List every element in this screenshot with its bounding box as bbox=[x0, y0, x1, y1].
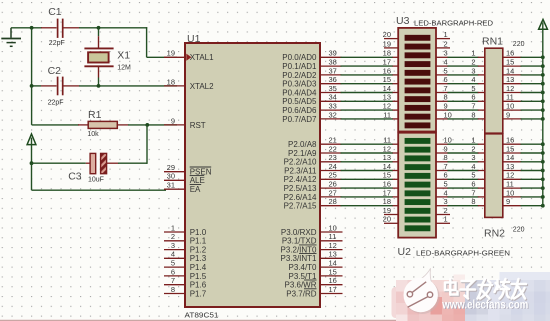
U3 left pin 16 bbox=[383, 66, 399, 75]
svg-text:24: 24 bbox=[329, 162, 337, 171]
wire RN1 pin 13 to +rail bbox=[521, 83, 543, 85]
svg-text:18: 18 bbox=[167, 77, 175, 86]
wire RN1 pin 14 to +rail bbox=[521, 74, 543, 76]
svg-text:4: 4 bbox=[171, 250, 175, 259]
RN1 left pin 8 bbox=[471, 110, 484, 119]
svg-text:20: 20 bbox=[383, 215, 391, 224]
U3 right pin 4 bbox=[436, 58, 448, 67]
svg-text:RN2: RN2 bbox=[484, 228, 505, 240]
svg-text:2: 2 bbox=[471, 144, 475, 153]
pin P2.5/A13 (pin 26) bbox=[284, 180, 342, 194]
svg-text:4: 4 bbox=[471, 75, 475, 84]
svg-text:4: 4 bbox=[444, 58, 448, 67]
wire: to EA pin bbox=[32, 189, 167, 191]
svg-text:P0.7/AD7: P0.7/AD7 bbox=[282, 115, 317, 124]
svg-text:37: 37 bbox=[329, 66, 337, 75]
svg-text:AT89C51: AT89C51 bbox=[185, 310, 219, 319]
wire P0.0 to U3 pin 18 bbox=[341, 56, 394, 58]
svg-text:39: 39 bbox=[329, 49, 337, 58]
wire: corner down to XTAL1 bbox=[146, 27, 148, 57]
rail junction bbox=[541, 117, 545, 121]
svg-text:P2.7/A15: P2.7/A15 bbox=[284, 202, 317, 211]
LED bargraph U3 (red) body bbox=[398, 28, 436, 132]
svg-text:34: 34 bbox=[329, 93, 337, 102]
RN2 left pin 6 bbox=[471, 180, 484, 189]
capacitor C3 (polarized 10uF) bbox=[32, 153, 119, 173]
svg-text:16: 16 bbox=[383, 66, 391, 75]
pin P2.7/A15 (pin 28) bbox=[284, 197, 342, 211]
svg-text:1: 1 bbox=[444, 30, 448, 39]
svg-text:P1.2: P1.2 bbox=[190, 246, 207, 255]
svg-text:17: 17 bbox=[383, 58, 391, 67]
svg-text:XTAL2: XTAL2 bbox=[190, 82, 214, 91]
svg-text:38: 38 bbox=[329, 58, 337, 67]
capacitor C1 bbox=[41, 19, 80, 38]
svg-text:C2: C2 bbox=[48, 65, 62, 77]
svg-text:12: 12 bbox=[506, 84, 514, 93]
watermark logo circle bbox=[404, 268, 440, 314]
wire RN2 pin 11 to +rail bbox=[521, 187, 543, 189]
rail junction bbox=[541, 186, 545, 190]
wire P2.2 to U2 pin 13 bbox=[341, 161, 394, 163]
RN1 right pin 9 bbox=[503, 110, 522, 119]
svg-text:16: 16 bbox=[329, 276, 337, 285]
wire U2 pin 10 to RN2 pin 1 bbox=[448, 143, 479, 145]
svg-text:11: 11 bbox=[329, 232, 337, 241]
rail junction bbox=[541, 151, 545, 155]
svg-text:12M: 12M bbox=[117, 65, 131, 72]
U3 left pin 18 bbox=[383, 49, 399, 58]
RN1 left pin 2 bbox=[471, 58, 484, 67]
svg-text:4: 4 bbox=[444, 188, 448, 197]
svg-text:P2.2/A10: P2.2/A10 bbox=[284, 158, 317, 167]
wire P2.4 to U2 pin 15 bbox=[341, 178, 394, 180]
wire: left rail down to C2 bbox=[31, 28, 33, 86]
svg-text:P0.2/AD2: P0.2/AD2 bbox=[282, 71, 317, 80]
svg-text:5: 5 bbox=[444, 180, 448, 189]
wire RN1 pin 10 to +rail bbox=[521, 109, 543, 111]
RN2 left pin 5 bbox=[471, 171, 484, 180]
svg-text:1: 1 bbox=[471, 136, 475, 145]
wire RN1 pin 16 to +rail bbox=[521, 56, 543, 58]
rail junction bbox=[541, 195, 545, 199]
pin P0.5/AD5 (pin 34) bbox=[282, 93, 341, 107]
svg-text:18: 18 bbox=[383, 49, 391, 58]
svg-text:P0.1/AD1: P0.1/AD1 bbox=[282, 62, 317, 71]
svg-text:www.elecfans.com: www.elecfans.com bbox=[442, 297, 529, 311]
svg-text:6: 6 bbox=[444, 75, 448, 84]
svg-text:14: 14 bbox=[383, 84, 391, 93]
svg-text:17: 17 bbox=[329, 285, 337, 294]
resistor network RN1 body bbox=[485, 48, 503, 133]
RN1 left pin 5 bbox=[471, 84, 484, 93]
RN2 right pin 11 bbox=[503, 180, 522, 189]
wire U3 pin 6 to RN1 pin 4 bbox=[448, 83, 479, 85]
svg-text:19: 19 bbox=[383, 39, 391, 48]
svg-text:P2.1/A9: P2.1/A9 bbox=[288, 149, 317, 158]
svg-text:P0.3/AD3: P0.3/AD3 bbox=[282, 80, 317, 89]
svg-text:15: 15 bbox=[383, 75, 391, 84]
svg-text:9: 9 bbox=[506, 197, 510, 206]
RN2 right pin 16 bbox=[503, 136, 522, 145]
svg-text:P0.4/AD4: P0.4/AD4 bbox=[282, 88, 317, 97]
wire U2 pin 5 to RN2 pin 6 bbox=[448, 187, 479, 189]
U2 left pin 15 bbox=[383, 171, 399, 180]
pin P0.0/AD0 (pin 39) bbox=[282, 49, 341, 63]
svg-text:3: 3 bbox=[471, 153, 475, 162]
svg-text:13: 13 bbox=[506, 75, 514, 84]
RN1 right pin 12 bbox=[503, 84, 522, 93]
svg-text:1: 1 bbox=[171, 223, 175, 232]
pin P2.3/A11 (pin 24) bbox=[284, 162, 341, 176]
RN1 right pin 15 bbox=[503, 58, 522, 67]
svg-text:22pF: 22pF bbox=[49, 40, 65, 47]
wire: C3 up to RST junction bbox=[146, 125, 148, 164]
wire RN1 pin 9 to +rail bbox=[521, 118, 543, 120]
svg-text:10: 10 bbox=[444, 110, 452, 119]
pin P1.7 (pin 8) bbox=[164, 285, 207, 299]
pin P2.2/A10 (pin 23) bbox=[284, 153, 342, 167]
svg-text:15: 15 bbox=[506, 58, 514, 67]
node: X1 top junction bbox=[97, 26, 101, 30]
svg-text:8: 8 bbox=[471, 197, 475, 206]
sheet border bottom bbox=[0, 319, 550, 321]
resistor network RN2 body bbox=[485, 134, 503, 218]
RN1 right pin 16 bbox=[503, 49, 522, 58]
pin P1.3 (pin 4) bbox=[164, 250, 207, 264]
pin P0.4/AD4 (pin 35) bbox=[282, 84, 341, 98]
pin P2.0/A8 (pin 21) bbox=[288, 136, 341, 150]
svg-text:13: 13 bbox=[383, 153, 391, 162]
svg-text:9: 9 bbox=[506, 110, 510, 119]
watermark mosaic background bbox=[392, 272, 550, 321]
svg-text:19: 19 bbox=[383, 206, 391, 215]
RN2 right pin 9 bbox=[503, 197, 522, 206]
svg-text:11: 11 bbox=[506, 93, 514, 102]
wire RN2 pin 9 to +rail bbox=[521, 205, 543, 207]
wire P2.3 to U2 pin 14 bbox=[341, 170, 394, 172]
pin ALE (pin 30) bbox=[164, 172, 205, 186]
svg-text:7: 7 bbox=[171, 276, 175, 285]
power terminal (up arrow, right) bbox=[539, 19, 548, 29]
wire: R1 to RST pin bbox=[128, 124, 177, 126]
svg-text:7: 7 bbox=[471, 188, 475, 197]
svg-text:6: 6 bbox=[471, 180, 475, 189]
U2 right pin 7 bbox=[436, 162, 448, 171]
wire U3 pin 3 to RN1 pin 1 bbox=[448, 56, 479, 58]
rail junction bbox=[541, 82, 545, 86]
U2 right pin 8 bbox=[436, 153, 448, 162]
U2 left pin 13 bbox=[383, 153, 399, 162]
svg-text:9: 9 bbox=[444, 144, 448, 153]
svg-text:9: 9 bbox=[444, 102, 448, 111]
svg-text:P1.3: P1.3 bbox=[190, 254, 207, 263]
wire: power arrow stem to C3 bbox=[31, 138, 33, 164]
U2 right pin 2 bbox=[436, 206, 450, 215]
U2 right pin 1 bbox=[436, 215, 450, 224]
svg-text:16: 16 bbox=[383, 180, 391, 189]
svg-text:33: 33 bbox=[329, 102, 337, 111]
svg-text:12: 12 bbox=[506, 171, 514, 180]
U3 right pin 8 bbox=[436, 93, 448, 102]
svg-text:P3.6/WR: P3.6/WR bbox=[284, 281, 316, 290]
svg-text:19: 19 bbox=[167, 49, 175, 58]
wire: C3 right to vertical bbox=[118, 162, 147, 164]
capacitor C2 bbox=[32, 77, 80, 96]
LED bargraph U2 (green) body bbox=[398, 133, 436, 238]
svg-text:5: 5 bbox=[171, 259, 175, 268]
wire RN2 pin 14 to +rail bbox=[521, 161, 543, 163]
U3 left pin 20 bbox=[383, 30, 399, 39]
pin P3.7/RD (pin 17) bbox=[286, 285, 342, 299]
svg-text:21: 21 bbox=[329, 136, 337, 145]
svg-text:5: 5 bbox=[471, 171, 475, 180]
U2 left pin 20 bbox=[383, 215, 399, 224]
U3 right pin 3 bbox=[436, 49, 448, 58]
wire U3 pin 4 to RN1 pin 2 bbox=[448, 65, 479, 67]
pin EA (pin 31) bbox=[164, 181, 201, 195]
svg-text:LED-BARGRAPH-RED: LED-BARGRAPH-RED bbox=[414, 21, 493, 28]
RN2 right pin 10 bbox=[503, 188, 522, 197]
svg-text:10k: 10k bbox=[87, 131, 99, 138]
node: C3 left junction bbox=[30, 161, 34, 165]
RN1 right pin 14 bbox=[503, 66, 522, 75]
U3 left pin 19 bbox=[383, 39, 399, 48]
wire P2.5 to U2 pin 16 bbox=[341, 187, 394, 189]
svg-text:13: 13 bbox=[506, 162, 514, 171]
svg-text:2: 2 bbox=[444, 39, 448, 48]
svg-text:14: 14 bbox=[383, 162, 391, 171]
svg-text:36: 36 bbox=[329, 75, 337, 84]
wire: to XTAL1 pin bbox=[147, 56, 177, 58]
wire P0.4 to U3 pin 14 bbox=[341, 92, 394, 94]
svg-text:P1.1: P1.1 bbox=[190, 237, 207, 246]
rail junction bbox=[541, 108, 545, 112]
watermark url text bbox=[442, 297, 530, 312]
pin P1.1 (pin 2) bbox=[164, 232, 207, 246]
svg-text:P1.7: P1.7 bbox=[190, 289, 207, 298]
svg-text:P1.4: P1.4 bbox=[190, 263, 207, 272]
svg-text:27: 27 bbox=[329, 188, 337, 197]
U3 left pin 17 bbox=[383, 58, 399, 67]
svg-text:17: 17 bbox=[383, 188, 391, 197]
svg-text:2: 2 bbox=[471, 58, 475, 67]
rail junction bbox=[541, 169, 545, 173]
wire P2.7 to U2 pin 18 bbox=[341, 205, 394, 207]
svg-text:14: 14 bbox=[506, 153, 514, 162]
svg-text:P2.3/A11: P2.3/A11 bbox=[284, 166, 317, 175]
U2 LED segments bbox=[405, 138, 431, 231]
ground bbox=[1, 28, 21, 47]
U2 left pin 11 bbox=[383, 136, 398, 145]
wire U2 pin 3 to RN2 pin 8 bbox=[448, 205, 479, 207]
svg-text:2: 2 bbox=[444, 206, 448, 215]
rail junction bbox=[541, 64, 545, 68]
U3 right pin 1 bbox=[436, 30, 450, 39]
U3 right pin 7 bbox=[436, 84, 448, 93]
RN1 left pin 7 bbox=[471, 102, 484, 111]
pin P0.2/AD2 (pin 37) bbox=[282, 66, 341, 80]
svg-text:15: 15 bbox=[329, 267, 337, 276]
rail junction bbox=[541, 91, 545, 95]
svg-text:10: 10 bbox=[506, 102, 514, 111]
wire U2 pin 6 to RN2 pin 5 bbox=[448, 178, 479, 180]
wire RN2 pin 10 to +rail bbox=[521, 196, 543, 198]
RN1 right pin 10 bbox=[503, 102, 522, 111]
pin P0.7/AD7 (pin 32) bbox=[282, 110, 341, 124]
U2 left pin 17 bbox=[383, 188, 399, 197]
svg-text:3: 3 bbox=[471, 66, 475, 75]
wire RN2 pin 16 to +rail bbox=[521, 143, 543, 145]
pin P1.2 (pin 3) bbox=[164, 241, 207, 255]
pin RST (pin 9) bbox=[164, 116, 206, 130]
wire U3 pin 10 to RN1 pin 8 bbox=[448, 118, 479, 120]
pin P3.2/INT0 (pin 12) bbox=[280, 241, 342, 255]
RN2 left pin 3 bbox=[471, 153, 484, 162]
U2 right pin 10 bbox=[436, 136, 452, 145]
svg-text:16: 16 bbox=[506, 49, 514, 58]
U2 left pin 18 bbox=[383, 197, 399, 206]
U2 right pin 4 bbox=[436, 188, 448, 197]
svg-text:11: 11 bbox=[383, 110, 391, 119]
wire P2.1 to U2 pin 12 bbox=[341, 152, 394, 154]
svg-text:12: 12 bbox=[383, 102, 391, 111]
svg-text:1: 1 bbox=[444, 215, 448, 224]
wire: C2 to XTAL2 bbox=[79, 85, 177, 87]
svg-text:35: 35 bbox=[329, 84, 337, 93]
wire U3 pin 8 to RN1 pin 6 bbox=[448, 100, 479, 102]
svg-text:14: 14 bbox=[329, 259, 337, 268]
wire P2.0 to U2 pin 11 bbox=[341, 143, 394, 145]
svg-text:10: 10 bbox=[329, 223, 337, 232]
RN2 left pin 8 bbox=[471, 197, 484, 206]
svg-text:P0.6/AD6: P0.6/AD6 bbox=[282, 106, 317, 115]
svg-text:5: 5 bbox=[444, 66, 448, 75]
U3 left pin 14 bbox=[383, 84, 399, 93]
wire P0.2 to U3 pin 16 bbox=[341, 74, 394, 76]
RN2 left pin 2 bbox=[471, 144, 484, 153]
svg-text:2: 2 bbox=[171, 232, 175, 241]
svg-text:220: 220 bbox=[513, 41, 525, 48]
svg-text:ALE: ALE bbox=[190, 176, 205, 185]
rail junction bbox=[541, 177, 545, 181]
node: X1 bottom junction bbox=[97, 84, 101, 88]
svg-text:220: 220 bbox=[513, 227, 525, 234]
wire U3 pin 5 to RN1 pin 3 bbox=[448, 74, 479, 76]
svg-text:13: 13 bbox=[383, 93, 391, 102]
wire P0.1 to U3 pin 17 bbox=[341, 65, 394, 67]
svg-text:12: 12 bbox=[383, 144, 391, 153]
watermark brand glyphs bbox=[445, 279, 527, 300]
svg-text:EA: EA bbox=[190, 185, 201, 194]
crystal X1 bbox=[84, 28, 113, 86]
svg-text:12: 12 bbox=[329, 241, 337, 250]
wire U2 pin 4 to RN2 pin 7 bbox=[448, 196, 479, 198]
pin P3.6/WR (pin 16) bbox=[284, 276, 342, 290]
rail junction bbox=[541, 142, 545, 146]
svg-text:28: 28 bbox=[329, 197, 337, 206]
svg-text:P3.1/TXD: P3.1/TXD bbox=[282, 237, 317, 246]
U3 right pin 6 bbox=[436, 75, 448, 84]
svg-text:9: 9 bbox=[171, 116, 175, 125]
wire RN2 pin 13 to +rail bbox=[521, 170, 543, 172]
svg-text:16: 16 bbox=[506, 136, 514, 145]
pin P2.4/A12 (pin 25) bbox=[284, 171, 342, 185]
svg-text:7: 7 bbox=[444, 84, 448, 93]
pin P2.1/A9 (pin 22) bbox=[288, 144, 341, 158]
wire RN1 pin 11 to +rail bbox=[521, 100, 543, 102]
U3 right pin 9 bbox=[436, 102, 448, 111]
rail junction bbox=[541, 99, 545, 103]
svg-text:P3.5/T1: P3.5/T1 bbox=[288, 272, 317, 281]
wire P2.6 to U2 pin 17 bbox=[341, 196, 394, 198]
svg-text:13: 13 bbox=[329, 250, 337, 259]
svg-text:U3: U3 bbox=[396, 15, 410, 27]
svg-text:C3: C3 bbox=[68, 171, 82, 183]
U3 left pin 15 bbox=[383, 75, 399, 84]
rail junction bbox=[541, 55, 545, 59]
pin P3.1/TXD (pin 11) bbox=[282, 232, 343, 246]
svg-text:P2.6/A14: P2.6/A14 bbox=[284, 193, 317, 202]
U2 right pin 5 bbox=[436, 180, 448, 189]
svg-text:3: 3 bbox=[444, 49, 448, 58]
svg-text:P0.0/AD0: P0.0/AD0 bbox=[282, 53, 317, 62]
RN1 left pin 3 bbox=[471, 66, 484, 75]
U3 LED segments bbox=[405, 35, 431, 128]
resistor R1 bbox=[78, 121, 129, 128]
svg-text:P2.4/A12: P2.4/A12 bbox=[284, 175, 317, 184]
pin P3.4/T0 (pin 14) bbox=[288, 259, 342, 273]
svg-text:8: 8 bbox=[171, 285, 175, 294]
svg-text:31: 31 bbox=[167, 181, 175, 190]
svg-text:8: 8 bbox=[444, 153, 448, 162]
pin XTAL1 (pin 19) bbox=[164, 49, 214, 63]
svg-text:P3.0/RXD: P3.0/RXD bbox=[281, 228, 317, 237]
svg-text:32: 32 bbox=[329, 110, 337, 119]
U3 right pin 10 bbox=[436, 110, 452, 119]
wire RN1 pin 12 to +rail bbox=[521, 92, 543, 94]
svg-text:RST: RST bbox=[190, 121, 206, 130]
XTAL1 clock arrow bbox=[186, 54, 191, 61]
svg-text:22: 22 bbox=[329, 144, 337, 153]
pin P3.0/RXD (pin 10) bbox=[281, 223, 343, 237]
wire P0.7 to U3 pin 11 bbox=[341, 118, 394, 120]
svg-text:U1: U1 bbox=[187, 33, 201, 45]
svg-text:30: 30 bbox=[167, 172, 175, 181]
pin P0.6/AD6 (pin 33) bbox=[282, 102, 341, 116]
wire U2 pin 8 to RN2 pin 3 bbox=[448, 161, 479, 163]
node: C2 left junction bbox=[30, 84, 34, 88]
svg-text:10: 10 bbox=[506, 188, 514, 197]
node: C1/ground junction bbox=[30, 26, 34, 30]
wire RN1 pin 15 to +rail bbox=[521, 65, 543, 67]
svg-text:10: 10 bbox=[444, 136, 452, 145]
wire U2 pin 9 to RN2 pin 2 bbox=[448, 152, 479, 154]
pin PSEN (pin 29) bbox=[164, 163, 212, 177]
svg-text:18: 18 bbox=[383, 197, 391, 206]
svg-text:P3.3/INT1: P3.3/INT1 bbox=[280, 254, 317, 263]
svg-text:10uF: 10uF bbox=[88, 177, 104, 184]
svg-text:1: 1 bbox=[471, 49, 475, 58]
logo pads and traces bbox=[407, 282, 433, 308]
svg-text:RN1: RN1 bbox=[482, 36, 503, 48]
U3 left pin 12 bbox=[383, 102, 399, 111]
RN2 right pin 12 bbox=[503, 171, 522, 180]
pin P2.6/A14 (pin 27) bbox=[284, 188, 342, 202]
pin P1.6 (pin 7) bbox=[164, 276, 207, 290]
wire RN2 pin 12 to +rail bbox=[521, 178, 543, 180]
svg-text:7: 7 bbox=[444, 162, 448, 171]
